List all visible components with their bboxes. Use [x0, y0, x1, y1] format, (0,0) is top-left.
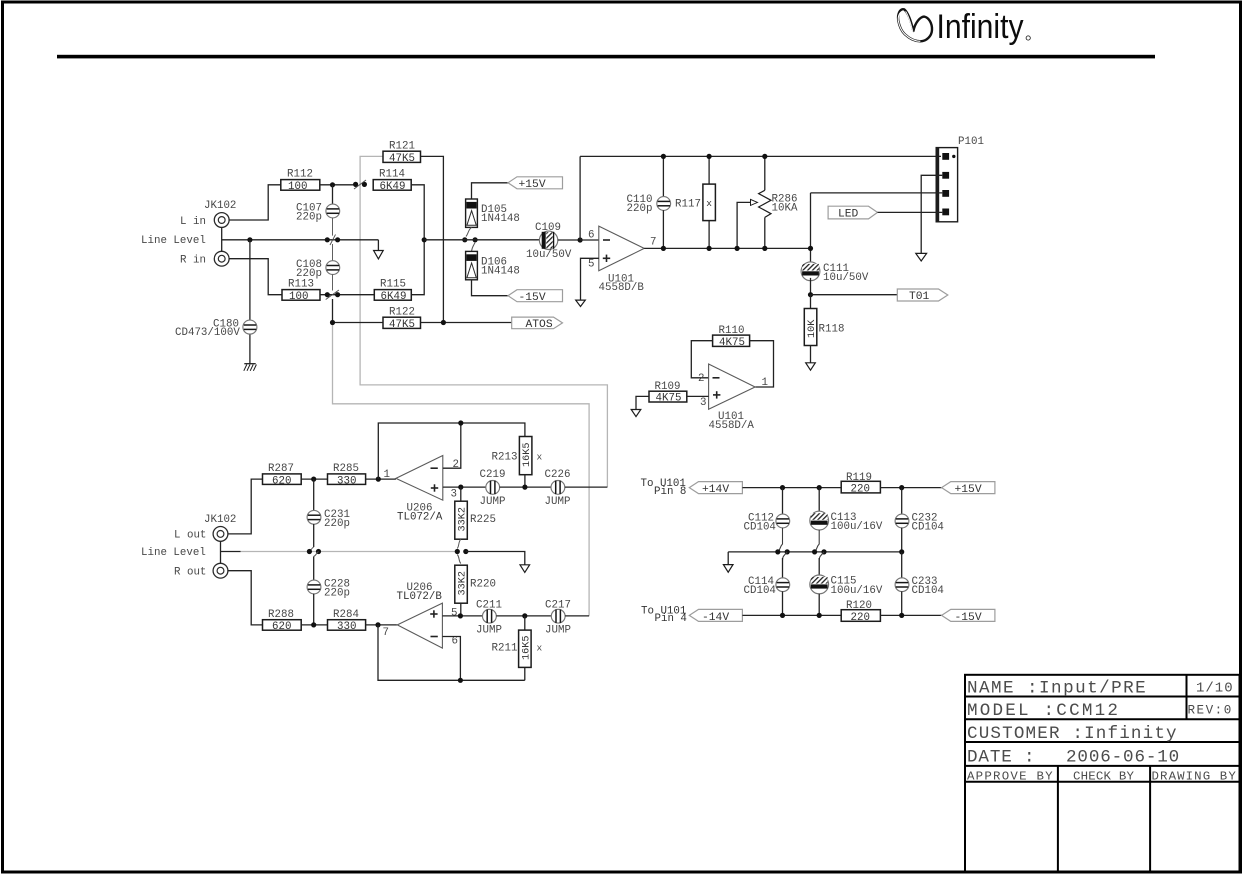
flag +15V (right)	[942, 482, 995, 496]
capacitor C228	[307, 557, 321, 625]
svg-text:4K75: 4K75	[719, 337, 745, 349]
svg-text:220: 220	[851, 484, 870, 496]
wire R213 bottom to pin3 row	[524, 475, 526, 487]
wire pin3 row	[443, 486, 486, 488]
svg-text:33K2: 33K2	[458, 507, 469, 531]
svg-text:DATE :: DATE :	[967, 747, 1035, 767]
svg-text:TL072/B: TL072/B	[397, 591, 443, 603]
svg-text:TL072/A: TL072/A	[397, 511, 443, 523]
capacitor C110	[657, 154, 671, 251]
wire pin2 loop	[443, 423, 461, 468]
svg-text:+15V: +15V	[955, 484, 982, 496]
wire C180 column	[249, 240, 251, 364]
jumper over output mid row at C231 column	[307, 547, 321, 557]
title CUSTOMER row	[967, 724, 1178, 744]
jumper dots on mid row at D column	[462, 237, 478, 242]
svg-text:C219: C219	[480, 469, 506, 481]
wire R110 loop right	[750, 341, 774, 387]
svg-text:R119: R119	[846, 472, 872, 484]
svg-text:1: 1	[384, 469, 390, 481]
jack L in	[214, 213, 229, 228]
svg-text:220: 220	[851, 612, 870, 624]
earth ground for C180	[244, 364, 257, 371]
flag ATOS	[512, 317, 563, 331]
wire R285 to pin1	[366, 478, 396, 480]
jack L out	[213, 527, 228, 542]
svg-text:R115: R115	[380, 278, 406, 290]
svg-text:ATOS: ATOS	[526, 319, 553, 331]
wire R110 loop left	[691, 341, 712, 378]
svg-text:-14V: -14V	[702, 612, 729, 624]
jumper dots ground row C113 column	[812, 549, 827, 554]
ground (U101/B pin5)	[576, 300, 586, 306]
wire R109 left to ground	[636, 396, 649, 409]
capacitor C113 (polarized)	[810, 488, 829, 552]
jack R out	[213, 563, 228, 578]
svg-text:REV:0: REV:0	[1188, 704, 1233, 718]
svg-text:-15V: -15V	[519, 292, 546, 304]
capacitor C107	[326, 185, 340, 236]
svg-text:6: 6	[452, 636, 458, 648]
wire input mid row	[222, 239, 379, 241]
svg-text:33K2: 33K2	[458, 571, 469, 595]
svg-text:4558D/A: 4558D/A	[709, 420, 755, 432]
svg-text:R110: R110	[719, 325, 745, 337]
ground (input mid row)	[374, 240, 384, 259]
svg-text:16K5: 16K5	[522, 443, 533, 467]
svg-text:JK102: JK102	[204, 514, 236, 526]
svg-text:L in: L in	[180, 216, 206, 228]
resistor R113	[282, 278, 320, 303]
resistor R114	[373, 169, 411, 193]
svg-text:x: x	[537, 643, 543, 654]
wire power ground row	[728, 551, 902, 553]
svg-text:620: 620	[272, 475, 291, 487]
svg-text:2006-06-10: 2006-06-10	[1066, 747, 1180, 767]
svg-text:5: 5	[451, 608, 457, 620]
svg-text:JUMP: JUMP	[545, 625, 571, 637]
junction at C107 column top	[330, 182, 335, 187]
svg-text:JK102: JK102	[204, 200, 236, 212]
svg-text:1N4148: 1N4148	[481, 266, 520, 278]
svg-text:4K75: 4K75	[656, 393, 682, 405]
junction C180 tap	[247, 237, 252, 242]
wire pin5 to ground	[581, 258, 599, 300]
resistor R225	[455, 487, 469, 548]
capacitor C108	[326, 244, 340, 291]
svg-text:R285: R285	[333, 463, 359, 475]
svg-text:x: x	[537, 452, 543, 463]
junction pin1	[376, 477, 381, 482]
capacitor C231	[307, 479, 321, 547]
wire jack sleeve column (output)	[220, 541, 222, 563]
resistor R120	[841, 600, 880, 624]
ground (P101 pin2)	[916, 253, 927, 261]
resistor R117	[703, 154, 716, 251]
junction mid row at x424	[422, 237, 427, 242]
resistor R284	[328, 609, 366, 633]
resistor R211	[519, 616, 533, 680]
resistor R112	[281, 169, 320, 193]
capacitor C211 (jumper)	[483, 609, 552, 623]
svg-text:R in: R in	[180, 255, 206, 267]
svg-text:R120: R120	[846, 600, 872, 612]
wire R112 to jumper	[320, 184, 356, 186]
jumper over bus A on R112 row	[353, 180, 367, 189]
svg-text:220p: 220p	[324, 518, 350, 530]
wire R121 right to vertical	[421, 156, 444, 322]
svg-text:47K5: 47K5	[389, 153, 415, 165]
op-amp U101/B	[599, 226, 644, 271]
diode D105	[466, 183, 508, 237]
svg-text:R220: R220	[470, 579, 496, 591]
wire P101 pin3 row	[811, 192, 943, 194]
jumper over R113 row at C column	[320, 290, 374, 323]
ground (power section)	[723, 552, 733, 572]
wire R in to R113	[229, 259, 282, 295]
capacitor C114	[776, 552, 790, 616]
jack R in	[214, 251, 229, 266]
svg-text:CD104: CD104	[744, 585, 776, 597]
gray bus B: R122 row to C217 row	[333, 324, 590, 616]
flag -15V (right)	[942, 609, 995, 623]
connector P101	[936, 148, 957, 222]
resistor R110	[713, 325, 750, 349]
ground (R118)	[806, 363, 816, 370]
title MODEL row	[967, 701, 1233, 721]
wire output row	[644, 247, 810, 249]
svg-text:APPROVE BY: APPROVE BY	[967, 769, 1054, 783]
capacitor C233	[895, 552, 909, 616]
wire L out to R287	[228, 479, 263, 534]
flag +15V	[508, 177, 563, 191]
capacitor C111 (polarized)	[801, 262, 820, 295]
svg-text:R211: R211	[492, 643, 518, 655]
svg-text:3: 3	[700, 397, 706, 409]
wire R288-R284	[301, 624, 327, 626]
wire pin6 loop	[442, 637, 460, 681]
svg-text:3: 3	[451, 488, 457, 500]
jumper dots output mid row at R column	[455, 549, 469, 554]
potentiometer R286	[735, 154, 772, 251]
svg-text:Pin 4: Pin 4	[655, 613, 687, 625]
wire R114 right down to R115	[411, 185, 424, 295]
svg-text:CD104: CD104	[744, 522, 776, 534]
svg-text:+15V: +15V	[519, 179, 546, 191]
svg-text:CHECK BY: CHECK BY	[1073, 769, 1134, 783]
svg-text:NAME :Input/PRE: NAME :Input/PRE	[967, 679, 1147, 699]
wire R287-R285	[301, 478, 327, 480]
node To U101 Pin 4	[641, 605, 687, 625]
svg-text:R117: R117	[675, 199, 701, 211]
wire R120 to -15V flag	[880, 614, 941, 616]
junction feedback/pin6	[578, 237, 583, 242]
svg-text:CUSTOMER :Infinity: CUSTOMER :Infinity	[967, 724, 1178, 744]
op-amp U101/A	[709, 364, 756, 409]
svg-text:R112: R112	[287, 169, 313, 181]
capacitor C180	[243, 320, 257, 334]
svg-text:5: 5	[588, 258, 594, 270]
wire -14V rail	[742, 614, 841, 616]
svg-text:x: x	[706, 198, 712, 209]
junction pin7	[375, 622, 380, 627]
svg-text:R121: R121	[389, 141, 415, 153]
wire output mid row (gray)	[241, 551, 458, 553]
svg-text:10KA: 10KA	[772, 203, 798, 215]
svg-text:220p: 220p	[324, 588, 350, 600]
svg-text:MODEL :CCM12: MODEL :CCM12	[967, 701, 1120, 721]
svg-text:DRAWING BY: DRAWING BY	[1152, 769, 1237, 783]
capacitor C109 (polarized)	[539, 231, 580, 249]
gray bus A: R121 to C226 row	[360, 156, 607, 487]
svg-text:7: 7	[650, 236, 656, 248]
wire feedback vertical x580	[579, 156, 581, 240]
wire to T01 flag	[811, 294, 898, 296]
title NAME row	[967, 679, 1234, 699]
title signature header row	[967, 769, 1237, 783]
flag -14V	[689, 609, 742, 623]
svg-text:2: 2	[453, 459, 459, 471]
svg-text:R out: R out	[174, 567, 206, 579]
svg-text:220p: 220p	[627, 203, 653, 215]
svg-text:100u/16V: 100u/16V	[831, 521, 883, 533]
svg-text:10u/50V: 10u/50V	[823, 272, 869, 284]
flag T01	[897, 289, 948, 303]
jumper dots ground row C112 column	[775, 549, 790, 554]
svg-text:10u/50V: 10u/50V	[526, 249, 572, 261]
svg-text:C109: C109	[535, 222, 561, 234]
resistor R285	[328, 463, 366, 487]
svg-text:Line Level: Line Level	[141, 235, 206, 247]
svg-text:330: 330	[337, 621, 356, 633]
node To U101 Pin 8	[641, 478, 687, 498]
svg-text:R225: R225	[470, 514, 496, 526]
svg-text:330: 330	[337, 475, 356, 487]
wire R284 to pin7	[366, 624, 398, 626]
svg-text:R118: R118	[819, 323, 845, 335]
svg-text:R288: R288	[268, 609, 294, 621]
svg-text:C217: C217	[545, 599, 571, 611]
svg-text:2: 2	[698, 373, 704, 385]
svg-text:4558D/B: 4558D/B	[599, 282, 645, 294]
wire jack sleeve column	[221, 227, 223, 251]
svg-text:R287: R287	[268, 463, 294, 475]
svg-text:Pin 8: Pin 8	[654, 486, 686, 498]
wire C111 column top	[810, 193, 812, 262]
wire output mid row (dark stub)	[221, 551, 241, 553]
wire mid row to C109	[424, 239, 540, 241]
resistor R122	[330, 307, 512, 331]
resistor R121	[383, 141, 421, 165]
op-amp U206/A	[396, 456, 443, 501]
capacitor C217 (jumper)	[551, 609, 589, 623]
svg-text:CD473/100V: CD473/100V	[175, 327, 240, 339]
svg-text:R113: R113	[288, 278, 314, 290]
svg-text:1/10: 1/10	[1196, 681, 1234, 697]
resistor R220	[455, 555, 469, 616]
resistor R288	[263, 609, 302, 633]
svg-text:100: 100	[288, 181, 307, 193]
flag +14V	[689, 482, 742, 496]
svg-text:Infinity: Infinity	[937, 8, 1024, 46]
svg-text:C226: C226	[545, 469, 571, 481]
resistor R119	[841, 472, 880, 496]
resistor R115	[374, 278, 411, 303]
op-amp U206/B	[397, 603, 442, 648]
capacitor C232	[895, 488, 909, 552]
svg-text:R213: R213	[492, 452, 518, 464]
wire pin5 row	[442, 615, 482, 617]
jumper over mid row at C column	[325, 235, 341, 246]
svg-text:47K5: 47K5	[389, 319, 415, 331]
svg-text:+14V: +14V	[702, 484, 729, 496]
diode D106	[466, 243, 508, 296]
svg-text:1N4148: 1N4148	[481, 213, 520, 225]
svg-text:P101: P101	[958, 136, 984, 148]
resistor R109	[649, 381, 687, 404]
svg-text:6: 6	[588, 230, 594, 242]
junction C231 top	[311, 477, 316, 482]
capacitor C219 (jumper)	[486, 481, 551, 495]
wire U206/B feedback bottom	[378, 625, 525, 680]
wire +14V rail	[742, 487, 841, 489]
resistor R213	[519, 437, 533, 475]
svg-text:-15V: -15V	[955, 612, 982, 624]
svg-text:6K49: 6K49	[380, 181, 406, 193]
wire R out to R288	[228, 571, 263, 625]
ground (R109)	[631, 410, 641, 417]
svg-text:R114: R114	[379, 169, 405, 181]
capacitor C115 (polarized)	[810, 552, 829, 616]
junction C228 bottom	[311, 622, 316, 627]
svg-text:CD104: CD104	[912, 522, 944, 534]
junction T01 row	[808, 292, 813, 297]
capacitor C226 (jumper)	[551, 481, 607, 495]
wire P101 pin2 to ground	[921, 175, 942, 253]
svg-text:10K: 10K	[807, 319, 818, 338]
Infinity logo swoosh	[898, 9, 932, 41]
flag -15V	[508, 290, 563, 304]
svg-text:CD104: CD104	[912, 585, 944, 597]
wire L in to R112	[229, 185, 281, 220]
svg-text:JUMP: JUMP	[545, 496, 571, 508]
wire output mid row dark right	[466, 552, 525, 565]
Infinity logo wordmark	[937, 8, 1031, 46]
wire R119 to +15V flag	[880, 487, 941, 489]
svg-text:16K5: 16K5	[521, 636, 532, 660]
svg-text:1: 1	[762, 377, 768, 389]
svg-text:7: 7	[383, 627, 389, 639]
wire top rail	[580, 155, 941, 157]
wire U206/A feedback top	[378, 423, 525, 479]
svg-text:R122: R122	[389, 307, 415, 319]
svg-text:100u/16V: 100u/16V	[831, 585, 883, 597]
svg-text:220p: 220p	[296, 211, 322, 223]
header rule	[57, 55, 1155, 59]
svg-text:620: 620	[272, 621, 291, 633]
svg-text:6K49: 6K49	[381, 291, 407, 303]
wire R109 to pin3	[687, 395, 709, 397]
flag LED	[828, 206, 942, 221]
resistor R287	[263, 463, 302, 487]
capacitor C112	[776, 488, 790, 552]
svg-text:100: 100	[289, 291, 308, 303]
svg-text:JUMP: JUMP	[480, 496, 506, 508]
resistor R118	[804, 295, 818, 363]
title block outer box	[965, 675, 1240, 872]
ground (output mid row)	[520, 565, 530, 573]
svg-text:R109: R109	[655, 381, 681, 393]
svg-text:R284: R284	[333, 609, 359, 621]
svg-text:Line Level: Line Level	[141, 547, 206, 559]
svg-text:JUMP: JUMP	[476, 625, 502, 637]
svg-text:C211: C211	[476, 599, 502, 611]
title DATE row	[967, 747, 1180, 767]
wire pin6 into op-amp	[580, 239, 599, 241]
svg-text:LED: LED	[838, 209, 859, 221]
svg-text:L out: L out	[174, 530, 206, 542]
svg-text:T01: T01	[909, 291, 930, 303]
